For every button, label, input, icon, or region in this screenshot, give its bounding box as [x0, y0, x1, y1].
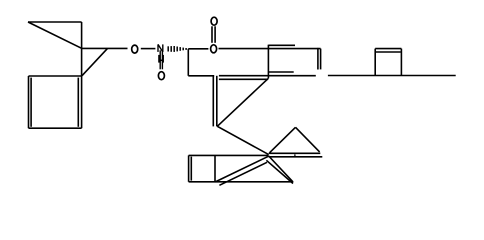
ring E right double vertical b [320, 49, 322, 70]
diagonal bond lower junction to hub [217, 126, 268, 154]
ring F small square: right [400, 49, 402, 76]
bond O3 to ring E / ring E top edge [219, 48, 321, 50]
ring F small square: inner top double-bond line [376, 51, 401, 53]
ring G rectangle: top edge [189, 154, 269, 156]
double vertical bond pair down from row2 a [212, 76, 214, 127]
baseline inner double-bond line left [219, 78, 268, 80]
ring C square: inner double-bond line right [77, 78, 79, 127]
ring C square: left edge [28, 76, 30, 128]
ring E inner bottom double-bond line [269, 71, 294, 73]
baseline right segment [328, 75, 456, 77]
atom O2 [158, 72, 164, 80]
triangle H left side [270, 127, 296, 152]
ring A top triangle: hypotenuse [28, 22, 82, 48]
ring G rectangle: left edge [188, 155, 190, 181]
horizontal pair right of hub a [269, 152, 321, 154]
ring A top triangle: top edge [28, 21, 82, 23]
bond C1 down [187, 49, 189, 76]
double bond N=O2 [160, 50, 162, 69]
double diagonal right pair a [269, 156, 293, 182]
stray dot [294, 154, 296, 156]
ring G rectangle: inner left double-bond line [190, 157, 192, 181]
atom O1 [132, 45, 138, 53]
triangle H right side [296, 127, 320, 152]
shared vertical bond (x=81.6 spine) [81, 22, 83, 128]
atom O4 [211, 17, 217, 25]
diagonal bond ring E to lower junction [217, 78, 268, 126]
double diagonal left pair a [215, 156, 268, 182]
baseline left segment [219, 75, 316, 77]
atom N [158, 44, 163, 52]
ring G rectangle: middle vertical [214, 155, 216, 181]
ring E left vertical [267, 45, 269, 79]
bond row2: C2 to ring D [188, 75, 214, 77]
ring F small square: left [374, 49, 376, 76]
ring C square: bottom edge [29, 127, 82, 129]
bond C1-O3 [188, 48, 208, 50]
double diagonal left pair b [219, 162, 267, 185]
hashed wedge N to C1 [168, 46, 186, 52]
ring F small square: top [375, 48, 401, 50]
ring E inner top double-bond line [268, 44, 295, 46]
ring C square: top edge [29, 75, 82, 77]
ring E right double vertical a [317, 48, 319, 70]
double vertical bond pair down from row2 b [216, 76, 218, 127]
ring B triangle: hypotenuse [82, 48, 108, 75]
horizontal pair right of hub b [269, 156, 323, 158]
atom O3 [211, 45, 217, 53]
double bond O3=O4 [211, 26, 213, 43]
ring G rectangle: bottom edge [189, 181, 294, 183]
double diagonal right pair b [266, 160, 293, 183]
ring C square: inner double-bond line left [30, 78, 32, 127]
atom H (below N) [159, 55, 163, 63]
bond O1-N [141, 48, 156, 50]
bond row1: spine to atom O1 [82, 47, 128, 49]
